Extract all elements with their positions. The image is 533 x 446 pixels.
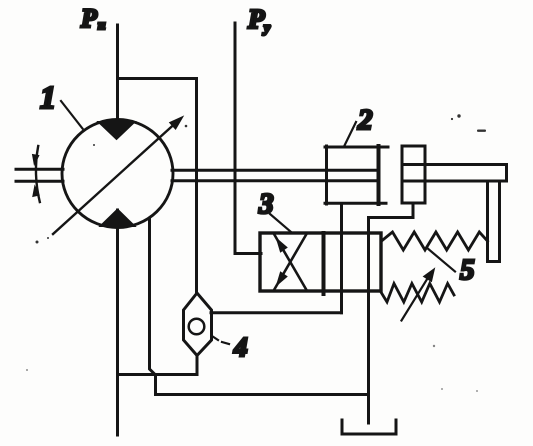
wire Pn supply vertical [116, 25, 119, 130]
wire pump suction vertical [116, 210, 119, 435]
svg-text:4: 4 [233, 332, 248, 362]
wire Py control vertical [235, 23, 261, 254]
wire cylinder to valve through line [340, 204, 343, 313]
wire Pn branch horizontal [118, 77, 197, 80]
spring adjust arrow [402, 276, 430, 321]
svg-text:1: 1 [40, 79, 56, 115]
spring 5 upper [382, 232, 488, 250]
svg-text:3: 3 [258, 188, 274, 220]
label 1 leader [61, 101, 83, 129]
shaft left line lower [16, 180, 63, 183]
label 5 leader [427, 248, 456, 272]
cylinder 2 left wall [325, 146, 328, 204]
shaft right line upper [172, 169, 378, 172]
svg-text:н: н [98, 17, 105, 32]
pump bottom flow triangle [100, 209, 136, 227]
valve V3 arrow up-left [274, 234, 307, 290]
valve V3 body box [260, 233, 381, 291]
svg-text:2: 2 [357, 104, 373, 136]
wire pump drain to tank [150, 219, 369, 395]
shaft right line lower [172, 179, 378, 182]
wire drain through line to tank [367, 219, 370, 424]
scan speck dots [26, 114, 486, 392]
svg-text:у: у [262, 21, 271, 36]
lever bar [402, 165, 507, 182]
wire check valve to valve bottom [211, 311, 342, 314]
tank symbol [342, 420, 396, 434]
spring 5 lower [382, 284, 455, 303]
shaft left line upper [16, 168, 63, 171]
pump U1 circle [62, 120, 173, 228]
wire check valve bottom stub [196, 356, 199, 375]
svg-text:5: 5 [460, 254, 475, 286]
svg-text:Р: Р [247, 4, 265, 34]
wire check valve return horizontal [118, 373, 198, 376]
wire plunger drain [369, 203, 414, 218]
valve V3 divider [322, 233, 326, 294]
check valve C4 body [184, 293, 212, 356]
pump variable displacement arrow [53, 124, 175, 234]
plunger block [402, 146, 425, 203]
cylinder 2 bottom wall [325, 202, 386, 205]
label 3 leader [270, 214, 291, 232]
cylinder 2 piston [377, 146, 381, 204]
svg-text:Р: Р [80, 4, 98, 33]
label 2 leader [345, 122, 357, 146]
valve V3 arrow down-left [274, 234, 307, 290]
check valve C4 ball [189, 319, 205, 335]
anchor bar [488, 181, 500, 262]
wire branch down to check valve [195, 79, 198, 295]
label 4 leader dashes [212, 336, 218, 340]
shaft rotation arrow [36, 146, 40, 202]
pump top flow triangle [98, 122, 136, 140]
cylinder 2 top wall [325, 146, 388, 149]
